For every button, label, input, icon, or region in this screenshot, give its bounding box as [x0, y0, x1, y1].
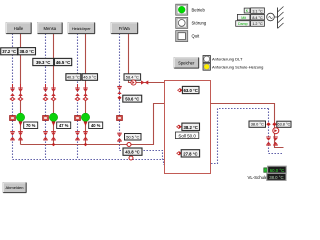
display T Halle return	[1, 48, 18, 55]
wire supply FriWa (red vertical + horizontal into tank)	[129, 34, 165, 83]
svg-text:Speicher: Speicher	[178, 61, 195, 66]
sensor Schule supply	[272, 122, 276, 126]
display T Schule return	[249, 121, 266, 127]
pump P4 FriWa	[131, 80, 136, 85]
display percent Mensa	[57, 122, 71, 129]
valve 3way Heizkoerper	[84, 122, 88, 127]
valve V1b Halle supply	[17, 84, 23, 101]
wire return Mensa (blue dashed)	[45, 34, 47, 160]
valve V4b FriWa supply	[141, 80, 148, 84]
wire supply Heizkoerper (red)	[85, 34, 87, 145]
pump P2 Mensa	[49, 113, 57, 121]
display T aussen	[251, 8, 265, 13]
svg-text:VL-Schule: VL-Schule	[248, 175, 268, 180]
actuator M3 Heizkoerper	[75, 116, 81, 121]
svg-text:60.0 °C: 60.0 °C	[270, 168, 284, 173]
valve V3b Heizkoerper supply	[82, 84, 88, 101]
valve 3way Mensa	[52, 122, 56, 127]
valve V5a Schule return	[266, 137, 271, 145]
valve V2c Mensa return lower	[43, 132, 48, 140]
indicator Anforderung Schule-Heizung	[203, 63, 210, 70]
actuator M2 Mensa	[43, 116, 49, 121]
display T manifold return	[123, 148, 142, 155]
wall hatching	[278, 7, 284, 29]
label Anforderung DLT	[212, 57, 243, 62]
display T tank top	[182, 86, 199, 93]
svg-text:Betrieb: Betrieb	[192, 7, 206, 12]
svg-text:Mensa: Mensa	[43, 26, 56, 31]
label VL-Schule	[248, 175, 268, 180]
svg-text:Abmelden: Abmelden	[5, 185, 23, 190]
label Stoerung	[192, 21, 207, 26]
sensor manifold supply	[127, 143, 131, 147]
wire blue return manifold	[13, 160, 165, 165]
svg-text:37.2 °C: 37.2 °C	[2, 49, 16, 54]
label Anforderung Schule-Heizung	[212, 64, 263, 69]
svg-text:38.0 °C: 38.0 °C	[269, 175, 283, 180]
wire return FriWa (blue dashed vertical)	[119, 34, 121, 151]
wire FriWa return to manifold	[120, 151, 163, 160]
svg-text:Quit: Quit	[192, 34, 201, 39]
display percent Heizkoerper	[89, 122, 103, 129]
sensor tank middle	[176, 125, 182, 129]
display T tank middle	[182, 123, 200, 130]
display T Mensa supply	[54, 58, 71, 65]
wire red supply manifold	[21, 104, 165, 145]
svg-text:63.0 °C: 63.0 °C	[184, 88, 198, 93]
valve V1a Halle return	[9, 84, 15, 101]
indicator Anforderung DLT	[203, 56, 210, 63]
sensor FriWa return	[118, 96, 122, 100]
svg-text:50.6 °C: 50.6 °C	[125, 97, 139, 102]
display T Heizkoerper return	[66, 74, 81, 81]
wire Schule return lower (blue dashed)	[269, 109, 283, 154]
node junction Heizkoerper supply-manifold	[84, 143, 88, 147]
label Damp	[236, 21, 250, 27]
label K aussentemp	[244, 8, 250, 13]
sensor tank bottom	[176, 151, 182, 155]
svg-text:38.0 °C: 38.0 °C	[20, 49, 34, 54]
svg-text:58.4 °C: 58.4 °C	[126, 75, 139, 80]
button Halle	[6, 23, 31, 34]
svg-text:Heizkörper: Heizkörper	[72, 26, 92, 31]
svg-text:8.4 °C: 8.4 °C	[252, 16, 263, 20]
actuator M4 FriWa	[117, 116, 123, 121]
button FriWa	[111, 23, 138, 34]
display T FriWa return	[123, 95, 142, 102]
display VL-Schule soll	[268, 166, 287, 173]
valve V3d Heizkoerper supply lower	[83, 132, 88, 140]
valve V1d Halle supply lower	[18, 132, 23, 140]
valve V2d Mensa supply lower	[51, 132, 56, 140]
indicator Quit	[176, 31, 188, 42]
svg-text:40.3 °C: 40.3 °C	[67, 75, 80, 80]
display percent Halle	[24, 122, 38, 129]
label Betrieb	[192, 7, 206, 12]
display VL-Schule ist	[267, 173, 286, 180]
sensor tank top	[177, 88, 183, 92]
svg-text:43.8 °C: 43.8 °C	[125, 150, 139, 155]
svg-text:46.9 °C: 46.9 °C	[83, 75, 96, 80]
sensor Schule return	[266, 122, 270, 126]
svg-text:FriWa: FriWa	[119, 26, 131, 31]
svg-text:38.0 °C: 38.0 °C	[251, 122, 264, 127]
valve V2a Mensa return	[42, 84, 48, 101]
valve V2b Mensa supply	[50, 84, 56, 101]
wire Schule return upper (blue dashed)	[211, 109, 269, 164]
valve V1c Halle return lower	[10, 132, 15, 140]
svg-text:3.1 °C: 3.1 °C	[252, 9, 263, 13]
button Mensa	[38, 23, 63, 34]
wire supply Halle (red)	[20, 34, 22, 145]
valve V4a FriWa return	[117, 87, 122, 95]
svg-text:Mit: Mit	[241, 16, 246, 20]
sensor aussentemperatur	[267, 13, 278, 21]
svg-text:47 %: 47 %	[59, 123, 69, 128]
display T Heizkoerper supply	[82, 74, 97, 81]
label Quit	[192, 34, 201, 39]
display T tank bottom	[181, 150, 199, 157]
wire Schule supply (red)	[211, 104, 284, 148]
button Abmelden	[3, 183, 26, 193]
sensor manifold return	[129, 156, 133, 160]
svg-text:1.2 °C: 1.2 °C	[252, 22, 263, 26]
svg-text:Halle: Halle	[14, 26, 24, 31]
indicator VL-Schule status	[264, 168, 268, 173]
indicator Betrieb	[176, 4, 188, 15]
button Speicher	[174, 58, 199, 69]
svg-text:Soll 50.0: Soll 50.0	[178, 133, 196, 138]
valve V4c FriWa return lower	[117, 133, 122, 141]
valve V5b Schule supply	[273, 137, 278, 145]
display T mittel	[251, 14, 265, 20]
svg-text:Störung: Störung	[192, 21, 207, 26]
display T FriWa supply	[124, 74, 141, 80]
pump P1 Halle	[16, 113, 24, 121]
valve V3c Heizkoerper return lower	[75, 132, 80, 140]
valve 3way Halle	[19, 122, 23, 127]
svg-text:38.2 °C: 38.2 °C	[184, 125, 198, 130]
svg-text:40 %: 40 %	[91, 123, 101, 128]
svg-text:70 %: 70 %	[26, 123, 36, 128]
svg-text:50.5 °C: 50.5 °C	[126, 134, 139, 139]
valve V3a Heizkoerper return	[74, 84, 80, 101]
button Heizkoerper	[68, 23, 95, 34]
svg-text:46.5 °C: 46.5 °C	[56, 60, 70, 65]
indicator Stoerung	[176, 17, 188, 28]
svg-text:63.8 °C: 63.8 °C	[278, 123, 291, 127]
pump P5 Schule	[273, 128, 279, 134]
wire supply Mensa (red)	[53, 34, 55, 145]
svg-text:27.8 °C: 27.8 °C	[183, 151, 197, 156]
wire return Halle (blue dashed)	[12, 34, 14, 160]
pump P3 Heizkoerper	[81, 113, 89, 121]
display T gedaempft	[251, 21, 265, 27]
svg-text:39.3 °C: 39.3 °C	[36, 60, 50, 65]
display setpoint tank	[175, 132, 198, 139]
svg-text:Anforderung DLT: Anforderung DLT	[212, 57, 243, 62]
display T Schule supply	[277, 121, 291, 127]
tank Speicher outline	[165, 81, 211, 174]
label Mit	[237, 14, 250, 20]
wire return Heizkoerper (blue dashed)	[77, 34, 79, 160]
svg-text:Damp: Damp	[238, 22, 248, 26]
display T Mensa return	[33, 58, 54, 65]
actuator M1 Halle	[10, 116, 16, 121]
display T manifold supply	[125, 134, 142, 141]
svg-text:Anforderung Schule-Heizung: Anforderung Schule-Heizung	[212, 64, 263, 69]
display T Halle supply	[18, 48, 36, 55]
node junction Mensa supply-manifold	[52, 143, 56, 147]
